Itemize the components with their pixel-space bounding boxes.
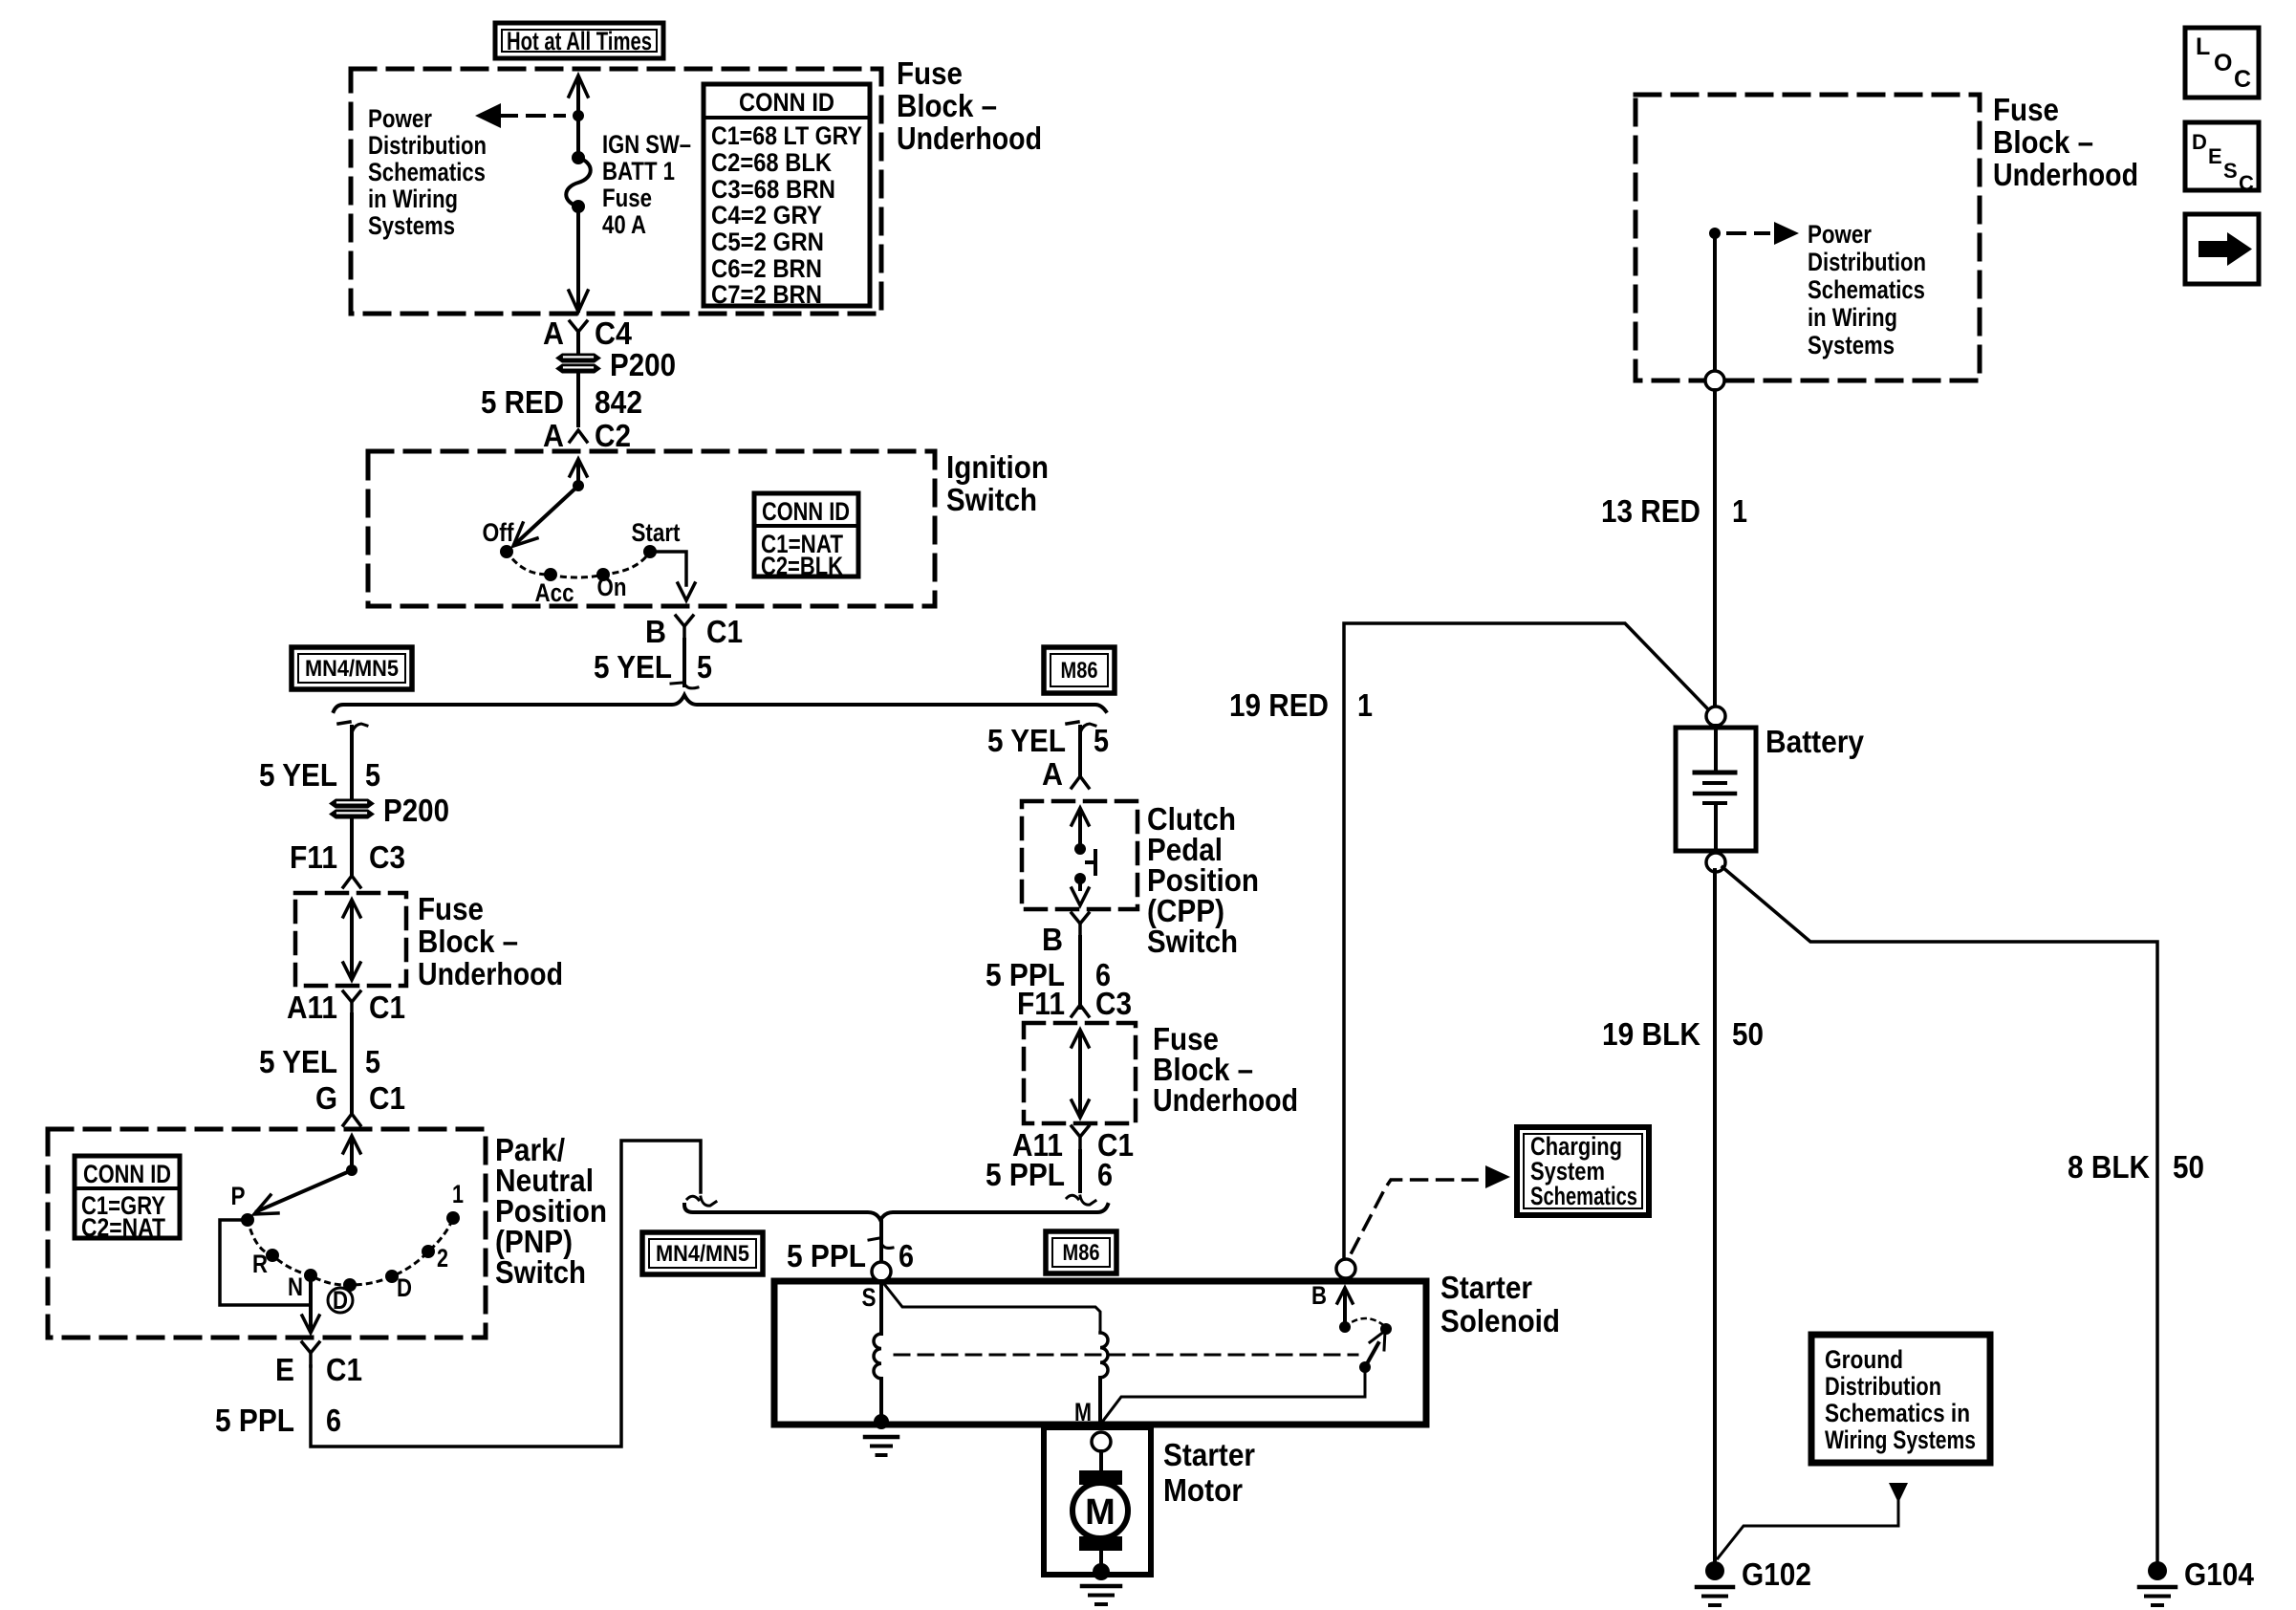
label: Fuse Block - Underhood (left) xyxy=(897,55,1042,156)
svg-text:Ground: Ground xyxy=(1825,1345,1903,1374)
PNP contact 1 xyxy=(446,1180,464,1225)
svg-text:A: A xyxy=(543,418,564,453)
svg-text:N: N xyxy=(288,1273,303,1301)
connector C3 pin F11 (right) xyxy=(1017,986,1132,1021)
svg-text:IGN SW–: IGN SW– xyxy=(602,130,691,159)
wire 5 PPL 6 (CPP to fuse block) xyxy=(986,937,1111,1008)
ground (starter motor) xyxy=(1082,1586,1120,1604)
solenoid pull-in winding L2 xyxy=(1100,1333,1108,1378)
svg-text:Fuse: Fuse xyxy=(1993,92,2059,127)
svg-text:On: On xyxy=(597,573,627,601)
svg-text:G102: G102 xyxy=(1742,1556,1811,1592)
svg-text:Off: Off xyxy=(483,518,515,547)
svg-text:Underhood: Underhood xyxy=(897,120,1042,156)
connector C1 pin A11 (left) xyxy=(287,990,405,1025)
svg-text:50: 50 xyxy=(2173,1149,2204,1185)
fuse block underhood (left-lower) dashed outline xyxy=(295,893,406,986)
svg-text:E: E xyxy=(275,1352,294,1387)
svg-text:1: 1 xyxy=(1732,493,1747,529)
svg-text:Fuse: Fuse xyxy=(418,891,484,926)
svg-text:Block –: Block – xyxy=(418,924,518,959)
wire 13 RED 1 xyxy=(1601,390,1747,707)
wire: winding L2 to M terminal xyxy=(1098,1378,1102,1425)
fuse F: IGN SW-BATT 1 Fuse 40 A xyxy=(566,151,591,213)
PNP contact N xyxy=(288,1269,317,1301)
wire inside right fuse block xyxy=(1705,233,1724,390)
PNP rotor wire and wiper arm xyxy=(254,1136,360,1214)
wire 5 YEL 5 (CPP branch) xyxy=(987,722,1109,776)
svg-text:2: 2 xyxy=(437,1244,448,1273)
svg-text:P200: P200 xyxy=(610,347,676,382)
svg-text:Underhood: Underhood xyxy=(1993,157,2138,192)
wire P/N to C1 pin E xyxy=(220,1220,319,1333)
svg-text:Switch: Switch xyxy=(1147,924,1238,959)
svg-text:Wiring Systems: Wiring Systems xyxy=(1825,1425,1976,1454)
svg-text:R: R xyxy=(252,1250,268,1278)
svg-text:M: M xyxy=(1074,1398,1092,1426)
svg-text:C2=68 BLK: C2=68 BLK xyxy=(711,148,832,177)
svg-text:5 PPL: 5 PPL xyxy=(215,1403,294,1438)
svg-text:Schematics: Schematics xyxy=(1530,1182,1637,1210)
PNP contact 2 xyxy=(422,1244,448,1273)
svg-text:C1: C1 xyxy=(369,990,405,1025)
ignition contact Acc xyxy=(535,568,574,607)
ignition switch rotor wire and wiper arm xyxy=(513,459,587,546)
CONN ID table (ignition switch) xyxy=(754,493,858,580)
svg-text:Underhood: Underhood xyxy=(1153,1082,1298,1118)
ignition contact Start xyxy=(632,518,681,558)
svg-text:C4=2 GRY: C4=2 GRY xyxy=(711,201,822,229)
svg-text:5 YEL: 5 YEL xyxy=(259,1044,337,1079)
dashed reference arrow to power distribution (right) xyxy=(1709,222,1799,245)
svg-text:L: L xyxy=(2196,33,2210,60)
svg-text:in Wiring: in Wiring xyxy=(1808,303,1897,332)
svg-text:Motor: Motor xyxy=(1163,1472,1243,1508)
svg-text:C2: C2 xyxy=(595,418,631,453)
fuse block underhood (left) dashed outline xyxy=(351,69,881,314)
svg-text:Schematics: Schematics xyxy=(368,158,486,186)
svg-text:Start: Start xyxy=(632,518,681,547)
svg-text:M: M xyxy=(1085,1492,1116,1533)
svg-text:Fuse: Fuse xyxy=(602,184,652,212)
battery xyxy=(1676,707,1865,872)
charging system schematics callout xyxy=(1517,1127,1649,1215)
svg-text:6: 6 xyxy=(326,1403,341,1438)
wire from Start contact to C1 pin B xyxy=(650,552,695,600)
fuse block underhood (right-lower) dashed outline xyxy=(1024,1023,1136,1123)
wire 5 PPL 6 (solenoid S feed) xyxy=(787,1220,914,1273)
svg-text:C3: C3 xyxy=(1095,986,1132,1021)
svg-text:A: A xyxy=(543,315,564,351)
svg-text:Ignition: Ignition xyxy=(946,449,1049,485)
svg-text:S: S xyxy=(862,1283,877,1312)
label: Fuse Block - Underhood (left-lower) xyxy=(418,891,563,991)
svg-text:B: B xyxy=(1311,1281,1327,1310)
feed-through arrow inside fuse block (right) xyxy=(1072,1030,1089,1118)
connector label MN4/MN5 (bottom) xyxy=(642,1232,763,1274)
svg-text:D: D xyxy=(397,1273,412,1302)
mechanical link (dashed) xyxy=(895,1354,1357,1357)
solenoid contact: B side xyxy=(1337,1288,1353,1333)
CPP switch contacts xyxy=(1072,808,1095,905)
connector label M86 (bottom) xyxy=(1046,1231,1116,1273)
solenoid contact travel arc (dashed) xyxy=(1345,1318,1392,1335)
svg-text:Block –: Block – xyxy=(897,88,997,123)
svg-text:in Wiring: in Wiring xyxy=(368,185,458,213)
svg-text:50: 50 xyxy=(1732,1016,1764,1052)
starter motor box xyxy=(1044,1427,1151,1575)
svg-text:Underhood: Underhood xyxy=(418,956,563,991)
ignition contact arc (dashed) xyxy=(507,552,650,577)
svg-text:G: G xyxy=(315,1080,337,1116)
svg-text:5 YEL: 5 YEL xyxy=(594,649,672,685)
svg-text:BATT 1: BATT 1 xyxy=(602,157,675,185)
label: IGN SW-BATT 1 Fuse 40 A xyxy=(602,130,691,239)
wire 5 PPL 6 (PNP out) xyxy=(215,1141,716,1447)
svg-text:A: A xyxy=(1042,756,1063,792)
solenoid terminal M xyxy=(1074,1398,1111,1451)
wire 19 RED 1 (battery to solenoid B) xyxy=(1229,623,1710,1259)
svg-text:5: 5 xyxy=(365,1044,380,1079)
connector C1 pin E xyxy=(275,1342,362,1387)
svg-text:C2=BLK: C2=BLK xyxy=(761,552,843,580)
svg-text:Systems: Systems xyxy=(368,211,455,240)
svg-text:Switch: Switch xyxy=(946,482,1037,517)
connector C1 pin G xyxy=(315,1080,405,1125)
svg-text:Battery: Battery xyxy=(1765,724,1865,759)
svg-text:Starter: Starter xyxy=(1440,1270,1532,1305)
connector C3 pin F11 xyxy=(290,819,405,887)
ground distribution schematics callout xyxy=(1811,1335,1990,1463)
svg-text:C1=68 LT GRY: C1=68 LT GRY xyxy=(711,121,862,150)
CONN ID table (fuse block) xyxy=(704,84,870,309)
wire: winding L1 to ground xyxy=(874,1379,889,1429)
PNP contact arc (dashed) xyxy=(248,1218,453,1285)
svg-text:6: 6 xyxy=(899,1238,914,1273)
PNP contact P xyxy=(231,1182,255,1227)
CONN ID table (PNP switch) xyxy=(75,1156,180,1242)
fuse block underhood (right) dashed outline xyxy=(1635,95,1980,381)
svg-text:F11: F11 xyxy=(1017,986,1065,1021)
svg-text:5 PPL: 5 PPL xyxy=(986,1157,1065,1192)
node: Hot at All Times label xyxy=(495,23,663,58)
label: Fuse Block - Underhood (right-lower) xyxy=(1153,1021,1298,1118)
splice P200 (top) xyxy=(555,347,676,382)
svg-text:M86: M86 xyxy=(1063,1240,1100,1266)
wire: S terminal to windings xyxy=(881,1281,1100,1334)
connector pin A (CPP) xyxy=(1042,756,1089,792)
svg-text:C7=2 BRN: C7=2 BRN xyxy=(711,280,822,309)
svg-text:MN4/MN5: MN4/MN5 xyxy=(305,656,399,682)
label: Clutch Pedal Position (CPP) Switch xyxy=(1147,801,1259,959)
wire 5 YEL 5 (left branch) xyxy=(259,722,380,798)
svg-text:C4: C4 xyxy=(595,315,633,351)
icon: LOC xyxy=(2185,28,2259,98)
svg-text:CONN ID: CONN ID xyxy=(83,1160,171,1188)
svg-text:P: P xyxy=(231,1182,246,1210)
svg-text:5: 5 xyxy=(1094,723,1109,758)
svg-text:C6=2 BRN: C6=2 BRN xyxy=(711,254,822,283)
svg-text:Distribution: Distribution xyxy=(368,131,487,160)
note: Power Distribution Schematics in Wiring Systems (left) xyxy=(368,104,487,240)
svg-text:Distribution: Distribution xyxy=(1808,248,1926,276)
svg-text:Acc: Acc xyxy=(535,578,574,607)
label: Park/Neutral Position (PNP) Switch xyxy=(495,1132,607,1290)
connector C1 pin B (ignition out) xyxy=(645,614,743,649)
svg-text:CONN ID: CONN ID xyxy=(762,497,850,526)
svg-text:B: B xyxy=(1042,922,1063,957)
wire: battery feed inside fuse block xyxy=(569,76,588,312)
ignition contact On xyxy=(596,568,627,601)
svg-text:5: 5 xyxy=(365,757,380,793)
svg-text:1: 1 xyxy=(452,1180,464,1208)
svg-text:Systems: Systems xyxy=(1808,331,1895,359)
dashed reference arrow to power distribution xyxy=(475,103,564,128)
svg-text:Block –: Block – xyxy=(1993,124,2093,160)
connector label MN4/MN5 (top) xyxy=(292,647,412,689)
solenoid terminal B xyxy=(1311,1259,1355,1310)
connector label M86 (top) xyxy=(1044,647,1115,693)
svg-text:D: D xyxy=(333,1286,348,1315)
park/neutral position switch dashed outline xyxy=(48,1129,486,1338)
svg-text:5 PPL: 5 PPL xyxy=(787,1238,866,1273)
svg-text:S: S xyxy=(2223,159,2238,183)
svg-text:D: D xyxy=(2192,130,2207,154)
svg-text:C5=2 GRN: C5=2 GRN xyxy=(711,228,824,256)
svg-text:19 BLK: 19 BLK xyxy=(1602,1016,1700,1052)
connector C2 pin A xyxy=(543,418,631,453)
svg-text:C1: C1 xyxy=(326,1352,362,1387)
svg-text:CONN ID: CONN ID xyxy=(739,88,834,117)
svg-text:B: B xyxy=(645,614,666,649)
svg-text:Power: Power xyxy=(368,104,432,133)
svg-text:C: C xyxy=(2239,171,2254,195)
solenoid terminal S xyxy=(862,1262,892,1312)
svg-text:MN4/MN5: MN4/MN5 xyxy=(656,1241,749,1267)
feed-through arrow inside fuse block xyxy=(343,900,360,980)
svg-text:F11: F11 xyxy=(290,839,337,875)
svg-text:6: 6 xyxy=(1097,1157,1113,1192)
svg-text:Hot at All Times: Hot at All Times xyxy=(507,27,652,55)
svg-text:Schematics in: Schematics in xyxy=(1825,1399,1970,1427)
icon: DESC xyxy=(2185,122,2259,195)
wire bundle brace (bus 2) xyxy=(684,1205,1108,1220)
svg-text:19 RED: 19 RED xyxy=(1229,687,1329,723)
ignition switch dashed outline xyxy=(368,451,935,606)
PNP contact R xyxy=(252,1249,279,1278)
wire 5 RED 842 xyxy=(481,374,642,425)
svg-text:G104: G104 xyxy=(2184,1556,2255,1592)
svg-text:Power: Power xyxy=(1808,220,1872,249)
icon: next arrow xyxy=(2185,214,2259,284)
svg-text:5 YEL: 5 YEL xyxy=(987,723,1066,758)
connector pin B (CPP out) xyxy=(1042,913,1089,957)
svg-text:Solenoid: Solenoid xyxy=(1440,1303,1560,1338)
note: Power Distribution Schematics in Wiring Systems (right) xyxy=(1808,220,1926,359)
svg-text:8 BLK: 8 BLK xyxy=(2068,1149,2150,1185)
svg-text:Distribution: Distribution xyxy=(1825,1372,1941,1401)
svg-text:Schematics: Schematics xyxy=(1808,275,1925,304)
svg-text:C1: C1 xyxy=(706,614,743,649)
svg-text:Switch: Switch xyxy=(495,1254,586,1290)
svg-text:C: C xyxy=(2234,66,2251,93)
svg-text:C3=68 BRN: C3=68 BRN xyxy=(711,175,835,204)
ground G104 xyxy=(2139,1556,2255,1605)
ground G102 xyxy=(1697,1556,1811,1605)
svg-text:C2=NAT: C2=NAT xyxy=(81,1213,165,1242)
svg-text:5 YEL: 5 YEL xyxy=(259,757,337,793)
label: Ignition Switch xyxy=(946,449,1049,517)
dashed reference arrow to charging system xyxy=(1352,1165,1510,1252)
solenoid hold-in winding L1 xyxy=(874,1334,881,1379)
clutch pedal position switch dashed outline xyxy=(1022,801,1137,909)
svg-text:C3: C3 xyxy=(369,839,405,875)
label: Starter Motor xyxy=(1163,1437,1255,1508)
svg-text:40 A: 40 A xyxy=(602,210,646,239)
PNP contact D (circled D mark) xyxy=(328,1278,357,1315)
wire 5 YEL 5 (ignition to splice bus) xyxy=(594,640,712,688)
wire 19 BLK 50 (battery to G102) xyxy=(1602,870,1764,1564)
svg-text:E: E xyxy=(2208,144,2222,168)
svg-text:5: 5 xyxy=(697,649,712,685)
svg-text:O: O xyxy=(2214,50,2232,76)
label: Starter Solenoid xyxy=(1440,1270,1560,1338)
svg-text:Starter: Starter xyxy=(1163,1437,1255,1472)
svg-text:A11: A11 xyxy=(287,990,337,1025)
svg-text:842: 842 xyxy=(595,384,642,420)
wire 5 PPL 6 (to starter bus) xyxy=(986,1151,1113,1205)
svg-text:Fuse: Fuse xyxy=(897,55,963,91)
ground (solenoid) xyxy=(865,1437,898,1455)
svg-text:M86: M86 xyxy=(1061,658,1098,684)
solenoid moving contact arm xyxy=(1100,1331,1385,1425)
reference pointer from ground distribution callout xyxy=(1718,1483,1908,1558)
starter solenoid box xyxy=(774,1281,1426,1425)
connector C4 pin A xyxy=(543,315,633,353)
wire 5 YEL 5 (to PNP) xyxy=(259,1014,380,1112)
svg-text:13 RED: 13 RED xyxy=(1601,493,1700,529)
svg-text:1: 1 xyxy=(1357,687,1373,723)
starter motor M with brushes xyxy=(1072,1451,1128,1580)
wire bundle brace (bus 1) xyxy=(334,695,1106,711)
svg-text:C1: C1 xyxy=(369,1080,405,1116)
PNP contact D2 xyxy=(385,1270,412,1302)
label: Fuse Block - Underhood (right) xyxy=(1993,92,2138,192)
wire 8 BLK 50 (battery to G104) xyxy=(1722,867,2204,1564)
splice P200 (left branch) xyxy=(329,793,449,828)
ignition contact Off xyxy=(483,518,515,558)
connector C1 pin A11 (right) xyxy=(1012,1126,1134,1163)
svg-text:P200: P200 xyxy=(383,793,449,828)
svg-text:5 RED: 5 RED xyxy=(481,384,564,420)
